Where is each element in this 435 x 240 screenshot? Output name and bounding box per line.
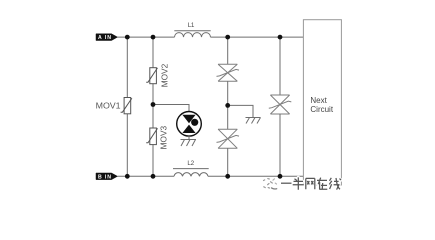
svg-text:B IN: B IN bbox=[98, 174, 111, 180]
varistor MOV1 bbox=[96, 98, 132, 114]
junction top rail at MOV1 bbox=[125, 35, 130, 40]
svg-text:Next: Next bbox=[310, 96, 327, 105]
svg-text:MOV3: MOV3 bbox=[160, 125, 169, 149]
char 在 bbox=[317, 178, 327, 190]
svg-text:Circuit: Circuit bbox=[310, 105, 333, 114]
junction bottom rail at TVS3 bbox=[278, 174, 283, 179]
char 在 bbox=[317, 178, 327, 190]
wire GDT to ground bbox=[188, 136, 190, 140]
junction MOV2/MOV3 node at GDT branch bbox=[151, 102, 156, 107]
svg-text:L2: L2 bbox=[187, 160, 194, 167]
TVS diode D2 (lower) bbox=[217, 129, 240, 148]
input tag A IN bbox=[96, 34, 118, 41]
char 线 bbox=[329, 178, 341, 190]
wire TVS chain vertical top bbox=[227, 37, 229, 64]
junction top rail at MOV2 bbox=[151, 35, 156, 40]
gas discharge tube bbox=[177, 112, 202, 137]
wire MOV2/MOV3 branch vertical bbox=[152, 37, 154, 176]
wire ground branch bbox=[228, 105, 253, 117]
wire GDT branch horizontal bbox=[153, 105, 189, 112]
junction TVS chain at ground branch bbox=[225, 103, 230, 108]
watermark text strokes bbox=[281, 177, 341, 189]
wire TVS3 branch vertical bottom bbox=[279, 114, 281, 176]
ground (chassis) right bbox=[246, 118, 261, 124]
varistor MOV3 bbox=[146, 125, 168, 149]
junction top rail at TVS chain bbox=[225, 35, 230, 40]
char 牛 bbox=[293, 177, 304, 189]
char 一 bbox=[281, 182, 292, 185]
wire TVS chain vertical bottom bbox=[227, 148, 229, 176]
svg-text:A IN: A IN bbox=[98, 35, 111, 41]
wire top rail right of L1 bbox=[211, 36, 304, 38]
inductor L1 bbox=[174, 22, 210, 37]
TVS diode D1 (upper) bbox=[217, 64, 240, 81]
TVS diode D3 (right) bbox=[269, 95, 292, 114]
svg-text:MOV1: MOV1 bbox=[96, 101, 122, 110]
wire bottom rail right of L2 bbox=[208, 175, 303, 177]
wire TVS3 branch vertical top bbox=[279, 37, 281, 95]
wire bottom rail left bbox=[118, 175, 175, 177]
junction top rail at TVS3 bbox=[278, 35, 283, 40]
svg-text:L1: L1 bbox=[188, 22, 195, 29]
wire TVS chain vertical middle bbox=[227, 81, 229, 129]
ground (chassis) below GDT bbox=[181, 140, 197, 147]
junction bottom rail at MOV1 bbox=[125, 174, 130, 179]
junction bottom rail at TVS chain bbox=[225, 174, 230, 179]
junction bottom rail at MOV3 bbox=[151, 174, 156, 179]
input tag B IN bbox=[96, 173, 118, 180]
char 牛 bbox=[293, 177, 304, 189]
next circuit block bbox=[303, 20, 341, 185]
inductor L2 bbox=[173, 160, 209, 176]
varistor MOV2 bbox=[146, 63, 169, 87]
watermark text 一牛网在线 bbox=[281, 177, 341, 189]
svg-text:MOV2: MOV2 bbox=[161, 63, 170, 87]
char 网 bbox=[306, 178, 315, 189]
char 网 bbox=[306, 178, 315, 189]
watermark logo bbox=[264, 179, 277, 189]
wire MOV1 branch vertical bbox=[126, 37, 128, 176]
char 一 bbox=[281, 182, 292, 184]
char 线 bbox=[329, 178, 341, 190]
wire top rail left bbox=[118, 36, 175, 38]
